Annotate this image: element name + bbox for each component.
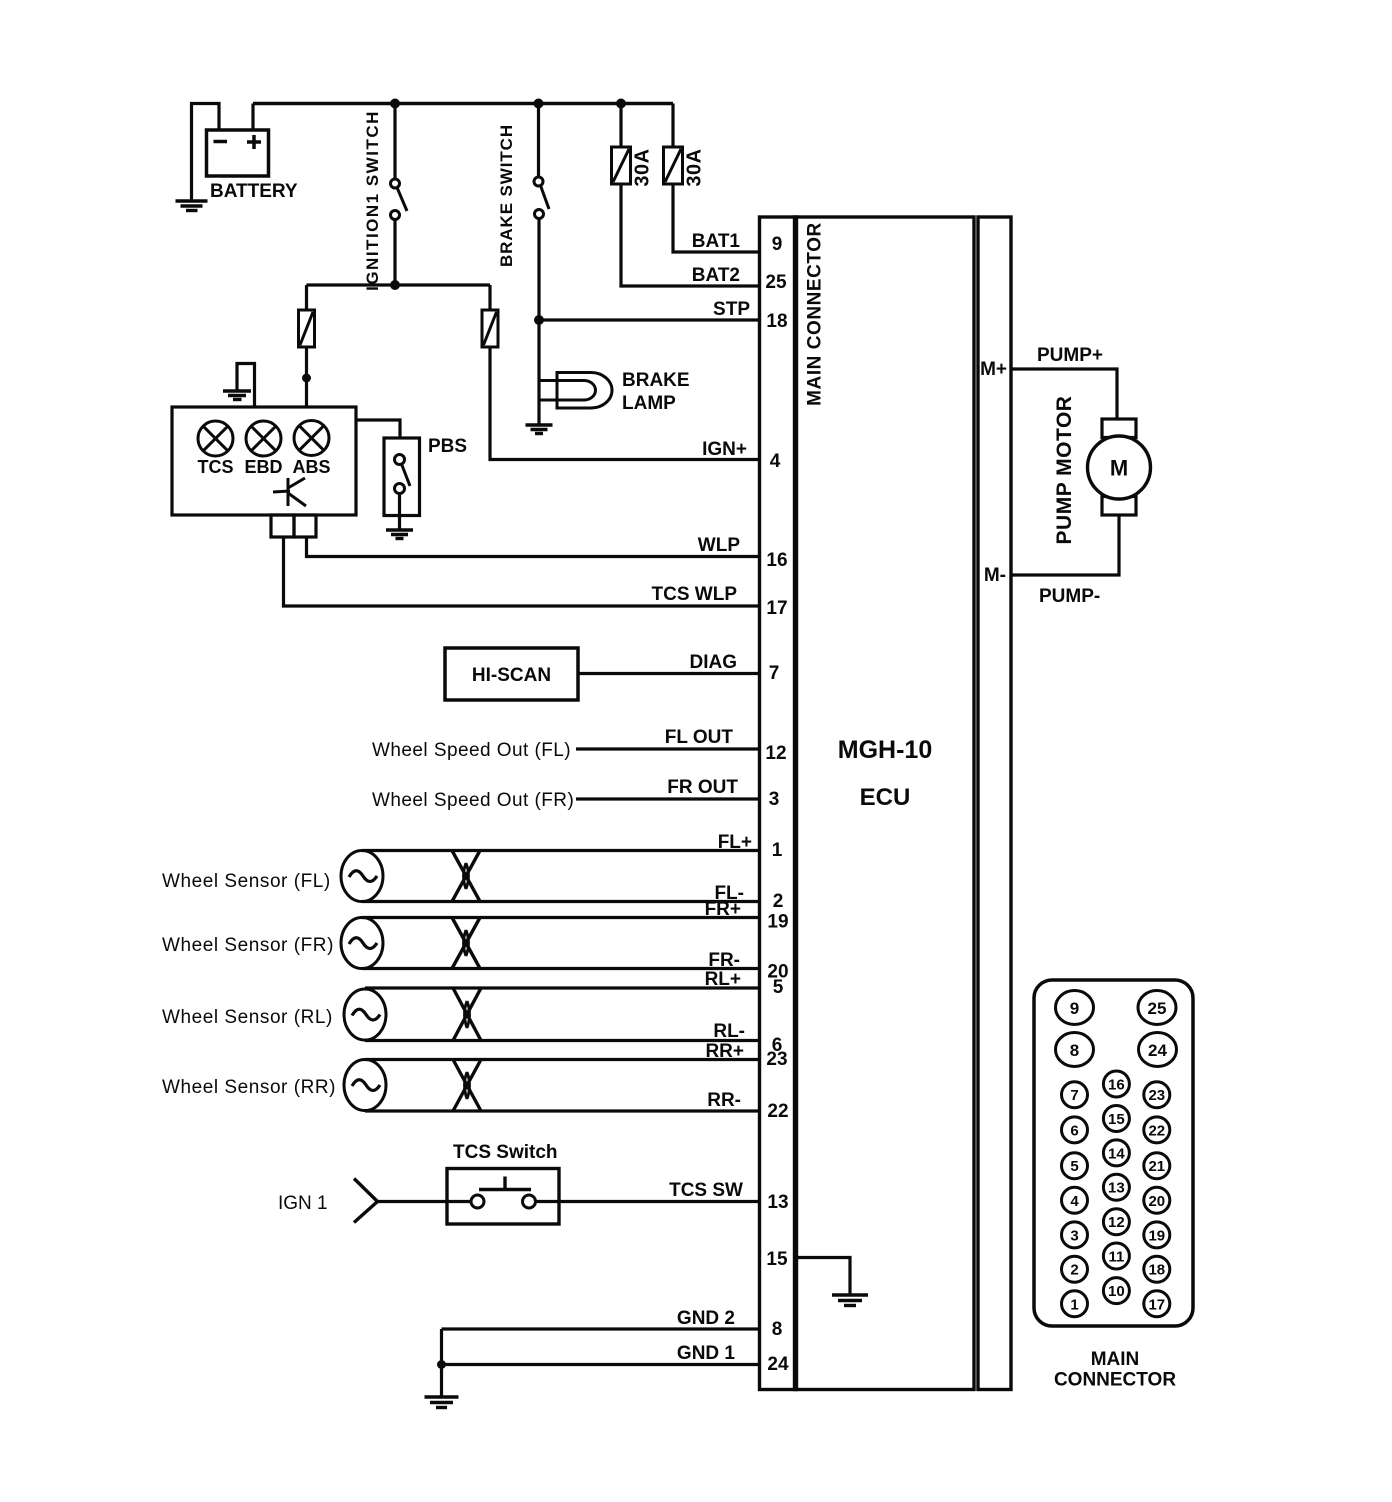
connector pin 9 xyxy=(1056,991,1094,1025)
svg-text:Wheel Sensor (RR): Wheel Sensor (RR) xyxy=(162,1077,336,1098)
pin 23 xyxy=(766,1049,787,1070)
svg-text:PUMP MOTOR: PUMP MOTOR xyxy=(1053,396,1076,545)
svg-text:WLP: WLP xyxy=(698,535,741,556)
svg-text:17: 17 xyxy=(1148,1296,1165,1313)
svg-text:24: 24 xyxy=(767,1354,789,1375)
svg-text:IGN 1: IGN 1 xyxy=(278,1193,328,1214)
svg-text:5: 5 xyxy=(1070,1158,1078,1175)
svg-text:GND 2: GND 2 xyxy=(677,1308,735,1329)
svg-text:BAT1: BAT1 xyxy=(692,231,741,252)
svg-text:4: 4 xyxy=(1070,1193,1079,1210)
svg-text:7: 7 xyxy=(1070,1087,1078,1104)
pin 25 xyxy=(765,272,787,293)
label BAT1 xyxy=(692,231,741,252)
pin 8 xyxy=(772,1319,783,1340)
wire PBS from lamp cluster xyxy=(356,420,400,438)
svg-text:Wheel Speed Out (FR): Wheel Speed Out (FR) xyxy=(372,790,574,811)
twisted pair FR xyxy=(452,918,480,969)
ground lamp cluster xyxy=(223,391,251,400)
wire BAT1 fuse F2 to pin 9 xyxy=(673,184,760,252)
label Wheel Sensor (FR) xyxy=(162,935,334,956)
wire GND 2 to pin 8 xyxy=(442,1327,760,1330)
fuse F1 30A xyxy=(612,104,654,187)
svg-text:20: 20 xyxy=(1148,1193,1165,1210)
label STP xyxy=(713,299,750,320)
svg-text:3: 3 xyxy=(1070,1227,1078,1244)
svg-text:CONNECTOR: CONNECTOR xyxy=(1054,1370,1176,1391)
svg-text:1: 1 xyxy=(772,840,783,861)
svg-text:HI-SCAN: HI-SCAN xyxy=(472,665,551,686)
svg-text:PUMP+: PUMP+ xyxy=(1037,345,1103,366)
label M+ xyxy=(980,359,1007,380)
svg-text:ECU: ECU xyxy=(860,784,911,811)
svg-text:FR-: FR- xyxy=(708,950,740,971)
svg-text:Wheel Sensor (FL): Wheel Sensor (FL) xyxy=(162,871,331,892)
label Wheel Sensor (FL) xyxy=(162,871,331,892)
label TCS Switch xyxy=(453,1142,558,1163)
svg-text:19: 19 xyxy=(767,912,788,933)
switch TCS S3 xyxy=(447,1169,559,1225)
brake switch S2 xyxy=(497,104,549,321)
label MAIN CONNECTOR caption xyxy=(1054,1349,1176,1391)
label Wheel Speed Out (FL) xyxy=(372,740,571,761)
svg-text:30A: 30A xyxy=(632,148,654,186)
lamp ABS xyxy=(292,421,330,478)
label PUMP+ xyxy=(1037,345,1103,366)
svg-text:2: 2 xyxy=(1070,1262,1078,1279)
svg-text:FR OUT: FR OUT xyxy=(667,777,738,798)
svg-text:EBD: EBD xyxy=(244,457,282,477)
svg-text:TCS: TCS xyxy=(198,457,234,477)
connector tab left lamp cluster xyxy=(271,515,294,537)
svg-text:1: 1 xyxy=(1070,1296,1078,1313)
pin 13 xyxy=(767,1192,788,1213)
wire IGN 1 to TCS switch xyxy=(378,1200,472,1203)
pin 9 xyxy=(772,234,783,255)
wire IGN+ fuse F4 to pin 4 xyxy=(490,347,760,460)
pin 24 xyxy=(767,1354,789,1375)
node junction above lamp cluster xyxy=(302,374,311,383)
connector pin 8 xyxy=(1056,1033,1094,1067)
label RL+ xyxy=(705,969,741,990)
wire TCS SW to pin 13 xyxy=(536,1200,760,1203)
ground brake lamp xyxy=(526,425,553,434)
brake lamp xyxy=(539,370,690,414)
fuse F4 xyxy=(482,285,498,347)
wheel sensor RL xyxy=(344,989,386,1040)
svg-text:11: 11 xyxy=(1108,1249,1124,1266)
label FR OUT xyxy=(667,777,738,798)
svg-text:6: 6 xyxy=(1070,1122,1078,1139)
svg-text:TCS SW: TCS SW xyxy=(669,1180,743,1201)
wire RL+ to pin 5 xyxy=(365,986,760,989)
label FL+ xyxy=(718,832,752,853)
node junction GND1 xyxy=(437,1360,446,1369)
svg-text:Wheel Speed Out (FL): Wheel Speed Out (FL) xyxy=(372,740,571,761)
connector pins left column xyxy=(1062,1082,1088,1317)
pin 3 xyxy=(769,789,780,810)
svg-text:12: 12 xyxy=(765,743,786,764)
svg-text:7: 7 xyxy=(769,663,780,684)
svg-text:RR+: RR+ xyxy=(705,1041,744,1062)
svg-text:23: 23 xyxy=(1148,1087,1165,1104)
label Wheel Sensor (RR) xyxy=(162,1077,336,1098)
svg-text:PBS: PBS xyxy=(428,436,467,457)
lamp EBD xyxy=(244,421,282,477)
ECU output strip xyxy=(978,217,1011,1390)
wire RL- to pin 6 xyxy=(365,1039,760,1042)
connector tab right lamp cluster xyxy=(294,515,316,537)
svg-text:M: M xyxy=(1110,456,1128,481)
ECU MGH-10 box xyxy=(795,217,975,1390)
main connector face view xyxy=(1034,980,1193,1326)
svg-text:FL+: FL+ xyxy=(718,832,752,853)
svg-text:LAMP: LAMP xyxy=(622,393,676,414)
svg-text:RR-: RR- xyxy=(707,1090,741,1111)
svg-text:13: 13 xyxy=(767,1192,788,1213)
svg-text:9: 9 xyxy=(1070,999,1079,1018)
pin 22 xyxy=(767,1101,788,1122)
label Wheel Speed Out (FR) xyxy=(372,790,574,811)
svg-text:BRAKE SWITCH: BRAKE SWITCH xyxy=(497,124,516,267)
wire DIAG to pin 7 xyxy=(578,672,760,675)
svg-text:MAIN: MAIN xyxy=(1091,1349,1140,1370)
label BAT2 xyxy=(692,265,740,286)
svg-text:FL OUT: FL OUT xyxy=(665,727,734,748)
svg-text:Wheel Sensor (RL): Wheel Sensor (RL) xyxy=(162,1007,333,1028)
svg-text:30A: 30A xyxy=(684,148,706,186)
fuse F2 30A xyxy=(664,104,706,187)
twisted pair RR xyxy=(453,1060,481,1112)
svg-text:FR+: FR+ xyxy=(705,899,741,920)
node junction ignition branch xyxy=(390,280,400,290)
wire BAT2 fuse F1 to pin 25 xyxy=(621,184,760,286)
pin 5 xyxy=(773,977,784,998)
label PUMP- xyxy=(1039,586,1100,607)
wire brake switch to brake lamp and ground xyxy=(537,320,540,424)
label DIAG xyxy=(690,652,738,673)
svg-text:BAT2: BAT2 xyxy=(692,265,740,286)
svg-text:M-: M- xyxy=(984,565,1006,586)
svg-text:13: 13 xyxy=(1108,1180,1125,1197)
twisted pair FL xyxy=(452,851,480,902)
wire FR OUT to pin 3 xyxy=(576,797,760,800)
svg-text:5: 5 xyxy=(773,977,784,998)
label GND 2 xyxy=(677,1308,735,1329)
svg-text:TCS WLP: TCS WLP xyxy=(652,584,738,605)
label FL OUT xyxy=(665,727,734,748)
pin 4 xyxy=(770,451,781,472)
svg-text:8: 8 xyxy=(772,1319,783,1340)
svg-text:IGNITION1 SWITCH: IGNITION1 SWITCH xyxy=(363,110,382,291)
battery xyxy=(207,130,298,202)
label TCS SW xyxy=(669,1180,743,1201)
wheel sensor RR xyxy=(344,1060,386,1111)
svg-text:15: 15 xyxy=(766,1249,788,1270)
svg-text:12: 12 xyxy=(1108,1214,1125,1231)
wire TCS WLP to pin 17 xyxy=(284,537,760,606)
pin 18 xyxy=(766,311,787,332)
wire PUMP+ to motor xyxy=(1011,369,1117,419)
svg-text:PUMP-: PUMP- xyxy=(1039,586,1100,607)
svg-text:16: 16 xyxy=(1108,1077,1125,1094)
svg-text:22: 22 xyxy=(1148,1122,1165,1139)
svg-text:DIAG: DIAG xyxy=(690,652,738,673)
svg-text:MAIN CONNECTOR: MAIN CONNECTOR xyxy=(805,222,826,406)
connector pins right column xyxy=(1144,1082,1170,1317)
svg-text:9: 9 xyxy=(772,234,783,255)
svg-text:15: 15 xyxy=(1108,1111,1125,1128)
svg-text:2: 2 xyxy=(773,891,784,912)
wire PUMP- from motor xyxy=(1011,515,1119,575)
wire GND 1 to pin 24 xyxy=(442,1363,760,1366)
svg-text:M+: M+ xyxy=(980,359,1007,380)
wire FL OUT to pin 12 xyxy=(576,747,760,750)
label RL- xyxy=(713,1021,745,1042)
svg-text:BATTERY: BATTERY xyxy=(210,181,298,202)
label FR- xyxy=(708,950,740,971)
svg-text:Wheel Sensor (FR): Wheel Sensor (FR) xyxy=(162,935,334,956)
twisted pair RL xyxy=(453,988,481,1041)
pin 6 xyxy=(772,1035,783,1056)
pump motor M1 xyxy=(1053,396,1151,545)
svg-text:TCS Switch: TCS Switch xyxy=(453,1142,558,1163)
svg-text:BRAKE: BRAKE xyxy=(622,370,690,391)
wire GND junction to ground xyxy=(440,1329,443,1396)
node junction bus / brake switch xyxy=(534,99,544,109)
label RR- xyxy=(707,1090,741,1111)
pin 16 xyxy=(766,550,787,571)
ignition switch S1 xyxy=(363,104,407,291)
svg-text:MGH-10: MGH-10 xyxy=(838,736,932,764)
label IGN 1 xyxy=(278,1193,328,1214)
label WLP xyxy=(698,535,741,556)
connector pins middle column xyxy=(1103,1071,1129,1304)
HI-SCAN tester xyxy=(445,648,578,700)
lamp TCS xyxy=(198,421,234,477)
wire RR+ to pin 23 xyxy=(365,1058,760,1061)
svg-text:STP: STP xyxy=(713,299,750,320)
svg-text:24: 24 xyxy=(1148,1041,1167,1060)
pin 15 xyxy=(766,1249,788,1270)
label IGN+ xyxy=(702,439,747,460)
svg-text:17: 17 xyxy=(766,598,787,619)
svg-text:18: 18 xyxy=(766,311,787,332)
pin 19 xyxy=(767,912,788,933)
wire battery negative to ground xyxy=(192,104,220,201)
label FR+ xyxy=(705,899,741,920)
connector pin 24 xyxy=(1139,1033,1177,1067)
svg-text:3: 3 xyxy=(769,789,780,810)
ground PBS xyxy=(386,530,413,539)
wire FL+ to pin 1 xyxy=(362,849,760,852)
wire ignition branch bus xyxy=(307,283,491,286)
lamp cluster internal symbol xyxy=(273,478,306,506)
svg-text:18: 18 xyxy=(1148,1262,1165,1279)
node junction bus / ignition switch xyxy=(390,99,400,109)
wire battery positive to top bus xyxy=(251,104,254,131)
ground GND1 GND2 xyxy=(425,1397,459,1408)
svg-text:8: 8 xyxy=(1070,1041,1079,1060)
svg-text:25: 25 xyxy=(765,272,787,293)
svg-text:IGN+: IGN+ xyxy=(702,439,747,460)
svg-text:4: 4 xyxy=(770,451,781,472)
pin 7 xyxy=(769,663,780,684)
label M- xyxy=(984,565,1006,586)
label RR+ xyxy=(705,1041,744,1062)
svg-text:25: 25 xyxy=(1148,999,1167,1018)
pin 1 xyxy=(772,840,783,861)
svg-text:16: 16 xyxy=(766,550,787,571)
fuse F3 xyxy=(299,285,315,347)
svg-text:14: 14 xyxy=(1108,1145,1125,1162)
wire FL- to pin 2 xyxy=(362,900,760,903)
svg-text:10: 10 xyxy=(1108,1283,1125,1300)
wire RR- to pin 22 xyxy=(365,1109,760,1112)
node junction STP / brake lamp xyxy=(534,315,544,325)
pin 2 xyxy=(773,891,784,912)
wheel sensor FL xyxy=(341,851,383,902)
svg-text:ABS: ABS xyxy=(292,457,330,477)
label GND 1 xyxy=(677,1343,736,1364)
connector pin 25 xyxy=(1138,991,1176,1025)
svg-text:21: 21 xyxy=(1148,1158,1165,1175)
svg-text:GND 1: GND 1 xyxy=(677,1343,736,1364)
svg-text:RL-: RL- xyxy=(713,1021,745,1042)
main connector pin strip xyxy=(760,217,826,1390)
switch PBS xyxy=(384,436,467,529)
warning lamp cluster box xyxy=(172,407,356,515)
wire fuse F3 to lamp cluster xyxy=(305,347,308,407)
pin 17 xyxy=(766,598,787,619)
label Wheel Sensor (RL) xyxy=(162,1007,333,1028)
wheel sensor FR xyxy=(341,918,383,969)
pin 20 xyxy=(767,962,788,983)
wire FR- to pin 20 xyxy=(362,967,760,970)
wire STP brake switch to pin 18 xyxy=(539,318,760,321)
label TCS WLP xyxy=(652,584,738,605)
wire top bus xyxy=(253,102,673,105)
ground ECU pin 15 xyxy=(832,1295,868,1306)
wire pin 15 internal ground xyxy=(797,1258,851,1295)
pin 12 xyxy=(765,743,786,764)
wire FR+ to pin 19 xyxy=(362,916,760,919)
svg-text:23: 23 xyxy=(766,1049,787,1070)
ground battery xyxy=(176,201,208,211)
svg-text:RL+: RL+ xyxy=(705,969,741,990)
svg-text:19: 19 xyxy=(1148,1227,1165,1244)
node IGN 1 fork xyxy=(354,1179,378,1223)
label FL- xyxy=(714,883,744,904)
node junction bus / fuse F1 xyxy=(616,99,626,109)
wire WLP to pin 16 xyxy=(307,537,760,557)
svg-text:22: 22 xyxy=(767,1101,788,1122)
wire lamp cluster to ground xyxy=(237,364,255,408)
